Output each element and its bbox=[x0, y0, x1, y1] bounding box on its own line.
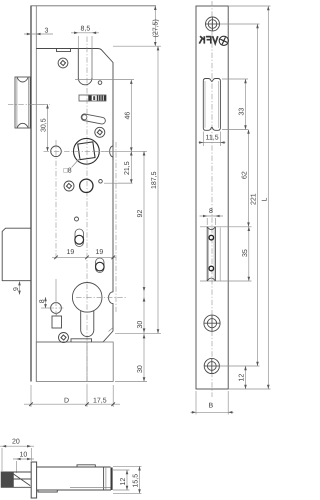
faceplate bar (section) bbox=[31, 462, 36, 498]
ext line y79.5 bbox=[75, 79, 134, 81]
cylinder centerline bbox=[76, 297, 127, 299]
dim 8.5 bbox=[71, 26, 99, 35]
svg-text:35: 35 bbox=[242, 249, 249, 257]
svg-text:9: 9 bbox=[13, 287, 20, 291]
svg-text:(27,5): (27,5) bbox=[152, 19, 160, 37]
ext line y46 bbox=[113, 45, 161, 47]
svg-text:3: 3 bbox=[45, 28, 49, 35]
dim 8 bbox=[200, 208, 224, 225]
ext y151 bbox=[101, 150, 147, 152]
svg-text:L: L bbox=[262, 198, 269, 202]
roller cutout bbox=[203, 79, 220, 131]
lower plate bbox=[36, 342, 113, 382]
centerline bbox=[211, 1, 213, 397]
svg-text:15,5: 15,5 bbox=[133, 474, 140, 488]
svg-text:17,5: 17,5 bbox=[93, 398, 107, 405]
euro cylinder hole bbox=[72, 283, 102, 337]
KFV logo (mirrored) bbox=[199, 36, 218, 43]
svg-text:8,5: 8,5 bbox=[81, 26, 91, 33]
dim 92 + 30 + 30 bbox=[137, 151, 145, 381]
dim 30.5 bbox=[31, 104, 49, 151]
svg-text:30: 30 bbox=[137, 365, 144, 373]
svg-text:92: 92 bbox=[137, 210, 144, 218]
dim 33 bbox=[222, 79, 248, 130]
lock case outline bbox=[36, 49, 113, 343]
svg-text:21,5: 21,5 bbox=[124, 161, 131, 175]
faceplate (side view) bbox=[31, 6, 156, 382]
dim 12 (detail) bbox=[113, 470, 130, 490]
svg-text:8: 8 bbox=[39, 299, 46, 303]
screw D bbox=[59, 333, 69, 343]
lock case (section) bbox=[37, 465, 113, 492]
small circle right bbox=[99, 180, 103, 184]
top screw hole bbox=[205, 17, 220, 31]
small circle near slot bbox=[98, 81, 102, 85]
dim 62 bbox=[242, 130, 250, 227]
small circle mid bbox=[75, 217, 79, 221]
dim 10 bbox=[13, 452, 34, 474]
svg-text:20: 20 bbox=[12, 439, 20, 446]
follower centerlines bbox=[44, 150, 109, 152]
dim B bbox=[191, 391, 234, 415]
bold circle below follower bbox=[80, 179, 93, 192]
svg-text:30: 30 bbox=[137, 321, 144, 329]
dim 8.5 slot bbox=[78, 36, 92, 85]
phillips mark bbox=[219, 36, 229, 46]
svg-text:187,5: 187,5 bbox=[151, 171, 158, 189]
svg-text:19: 19 bbox=[96, 249, 104, 256]
dim 9 bbox=[13, 281, 21, 295]
dim 221 bbox=[220, 24, 260, 366]
chamfer tick bbox=[109, 328, 113, 332]
svg-text:11,5: 11,5 bbox=[206, 135, 219, 142]
dim 12 bbox=[239, 366, 247, 389]
dim D / 17.5 bbox=[24, 385, 120, 407]
svg-text:19: 19 bbox=[67, 249, 75, 256]
screw C bbox=[64, 181, 74, 191]
screw B bbox=[95, 127, 105, 137]
dim 35 bbox=[242, 227, 250, 281]
latch bolt (section) bbox=[1, 472, 31, 487]
case top tab bbox=[57, 49, 71, 52]
svg-text:30,5: 30,5 bbox=[41, 118, 48, 132]
capsule slot 2 bbox=[96, 258, 105, 273]
dim (27,5) bbox=[152, 6, 160, 46]
ext y333 bbox=[115, 332, 161, 334]
BOTTOM DETAIL bbox=[0, 439, 142, 499]
dim 8 (cylinder) bbox=[39, 297, 50, 308]
dim L bbox=[228, 6, 270, 389]
ext line y183 bbox=[104, 182, 133, 184]
latch bolt (side) bbox=[15, 77, 30, 128]
middle screw hole bbox=[204, 315, 220, 331]
latch slot bbox=[200, 227, 252, 281]
RIGHT VIEW bbox=[191, 1, 271, 415]
ext y381.5 bbox=[115, 381, 147, 383]
lower screw hole bbox=[204, 358, 219, 373]
serrated adjuster bar bbox=[79, 95, 106, 101]
dim 19 19 bbox=[52, 249, 116, 259]
deadbolt block bbox=[2, 228, 31, 281]
square hole bbox=[52, 313, 62, 328]
LEFT VIEW bbox=[2, 6, 161, 408]
capsule slot 1 bbox=[75, 229, 84, 247]
case bottom tab bbox=[71, 339, 92, 342]
svg-text:12: 12 bbox=[120, 478, 127, 486]
faceplate front view bbox=[196, 6, 228, 389]
dim 46 bbox=[125, 80, 133, 152]
svg-text:62: 62 bbox=[242, 171, 249, 179]
dim 21.5 bbox=[118, 151, 133, 183]
svg-text:10: 10 bbox=[20, 452, 28, 459]
svg-text:12: 12 bbox=[239, 374, 246, 382]
dim 15.5 (detail) bbox=[113, 466, 142, 493]
dim 3 bbox=[24, 28, 53, 36]
follower nut bbox=[64, 138, 100, 174]
dim 11.5 bbox=[199, 132, 226, 147]
svg-text:33: 33 bbox=[239, 108, 246, 116]
svg-text:□8: □8 bbox=[64, 168, 72, 175]
dim 187.5 bbox=[151, 46, 159, 333]
latch centerline bbox=[8, 103, 50, 105]
dim 20 bbox=[0, 439, 34, 472]
svg-text:D: D bbox=[64, 398, 69, 405]
aux cross circle bbox=[49, 279, 64, 316]
screw A bbox=[58, 58, 68, 68]
tilted capsule link bbox=[81, 113, 106, 124]
follower aux circle bbox=[51, 146, 62, 157]
svg-text:B: B bbox=[209, 403, 214, 410]
svg-text:8: 8 bbox=[209, 208, 213, 215]
svg-text:46: 46 bbox=[125, 112, 132, 120]
svg-text:221: 221 bbox=[251, 193, 258, 205]
